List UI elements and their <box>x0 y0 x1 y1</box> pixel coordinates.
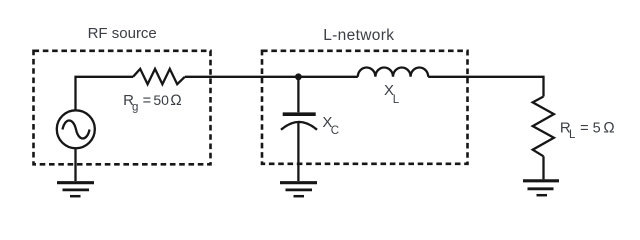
ground (below capacitor) <box>280 183 317 197</box>
svg-text:C: C <box>331 125 339 137</box>
svg-text:RF source: RF source <box>88 25 157 42</box>
resistor Rg <box>133 69 185 84</box>
svg-text:L: L <box>569 129 576 141</box>
inductor XL (4 humps) <box>358 68 428 77</box>
capacitor XC (flat + curved plate) <box>281 114 317 130</box>
label: XC <box>322 114 339 137</box>
wire: RL to ground <box>542 156 544 179</box>
node A (junction dot) <box>295 73 302 80</box>
value label: Rg = 50 ohm <box>123 92 182 114</box>
value label: RL = 5 ohm <box>560 119 615 141</box>
wire: capacitor to ground <box>297 122 299 181</box>
label: XL <box>384 82 400 106</box>
dashed box: L-network <box>262 51 468 164</box>
dashed box: RF source <box>34 51 211 165</box>
svg-text:L: L <box>393 94 400 106</box>
wire: Rg to inductor (through node) <box>185 76 358 78</box>
svg-text:Ω: Ω <box>603 119 615 136</box>
wire: inductor to RL corner <box>428 77 543 97</box>
resistor RL (vertical zigzag) <box>533 97 554 157</box>
wire: source to ground <box>74 148 76 181</box>
svg-text:=: = <box>143 93 151 109</box>
svg-text:50: 50 <box>153 92 169 108</box>
ground (below RL) <box>523 181 559 195</box>
wire: node to capacitor <box>297 77 299 113</box>
svg-text:= 5: = 5 <box>580 120 601 136</box>
svg-text:Ω: Ω <box>170 92 182 109</box>
svg-text:g: g <box>132 102 138 114</box>
AC source V1 (circle with sine) <box>57 110 95 148</box>
svg-text:L-network: L-network <box>323 27 394 44</box>
wire: source riser to resistor Rg <box>76 77 134 111</box>
ground (below AC source) <box>57 183 94 197</box>
